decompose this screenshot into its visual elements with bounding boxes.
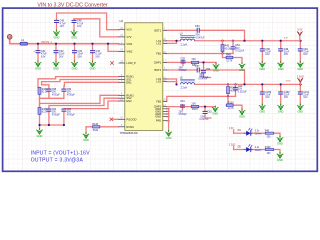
svg-text:91.3k: 91.3k — [42, 92, 49, 94]
svg-text:GND: GND — [72, 66, 78, 70]
svg-text:ROSC: ROSC — [126, 125, 134, 129]
svg-text:R137: R137 — [192, 108, 198, 111]
svg-text:PGOOD: PGOOD — [126, 117, 136, 121]
svg-text:0.047uF: 0.047uF — [200, 76, 209, 79]
svg-text:GND: GND — [278, 109, 284, 113]
svg-text:12.7k: 12.7k — [228, 107, 235, 110]
svg-text:0.047uF: 0.047uF — [200, 118, 209, 121]
svg-text:25V: 25V — [52, 112, 57, 114]
svg-text:C55: C55 — [181, 57, 186, 60]
svg-text:PAD: PAD — [156, 119, 161, 123]
svg-text:50V: 50V — [96, 55, 101, 58]
svg-text:GND: GND — [166, 136, 172, 140]
svg-text:10V: 10V — [303, 53, 308, 56]
svg-text:GND: GND — [277, 158, 283, 162]
svg-text:4700pF: 4700pF — [179, 113, 188, 116]
svg-text:10V: 10V — [284, 53, 289, 56]
svg-text:GND: GND — [71, 36, 77, 40]
svg-text:VIN/VS_1: VIN/VS_1 — [41, 41, 53, 44]
svg-text:V7V: V7V — [126, 35, 131, 39]
svg-text:GND: GND — [212, 111, 218, 115]
svg-text:EN2: EN2 — [126, 99, 132, 103]
svg-text:GND: GND — [277, 142, 283, 146]
svg-text:GND: GND — [53, 66, 59, 70]
svg-text:92.3k: 92.3k — [42, 112, 49, 114]
svg-text:R140: R140 — [92, 123, 98, 126]
svg-text:4700pF: 4700pF — [67, 114, 75, 116]
svg-text:C58: C58 — [52, 89, 57, 91]
svg-text:4700pF: 4700pF — [67, 94, 75, 96]
svg-text:R48: R48 — [226, 54, 231, 57]
svg-text:0.047uF: 0.047uF — [196, 36, 205, 39]
svg-text:0.022uF: 0.022uF — [238, 90, 247, 93]
svg-text:10V: 10V — [303, 96, 308, 99]
svg-text:20K: 20K — [192, 58, 197, 61]
svg-text:563k: 563k — [93, 129, 99, 132]
svg-text:VIN2: VIN2 — [126, 49, 132, 53]
svg-text:GND: GND — [239, 114, 245, 118]
svg-text:GND: GND — [90, 66, 96, 70]
svg-text:3.3V: 3.3V — [297, 28, 303, 32]
svg-text:OUTPUT = 3.3V@3A: OUTPUT = 3.3V@3A — [31, 158, 84, 164]
svg-text:GND: GND — [213, 69, 219, 73]
svg-text:50V: 50V — [78, 55, 83, 58]
svg-text:GND: GND — [297, 109, 303, 113]
svg-text:10V: 10V — [77, 25, 82, 28]
svg-text:GND: GND — [259, 109, 265, 113]
svg-text:+: + — [33, 49, 35, 53]
svg-text:VIN to 3.3V DC-DC Converter: VIN to 3.3V DC-DC Converter — [37, 2, 108, 8]
svg-text:INPUT = (VOUT+1)-16V: INPUT = (VOUT+1)-16V — [31, 151, 91, 157]
svg-text:LX2: LX2 — [156, 80, 161, 84]
svg-text:25V: 25V — [67, 92, 72, 94]
svg-text:FB1: FB1 — [156, 52, 161, 56]
svg-text:U3: U3 — [120, 19, 124, 23]
svg-text:BST2: BST2 — [154, 68, 161, 72]
svg-text:C61: C61 — [180, 100, 185, 103]
svg-text:EN1: EN1 — [126, 80, 132, 84]
svg-text:2.2uH: 2.2uH — [181, 43, 188, 46]
svg-text:CMP1: CMP1 — [154, 60, 162, 64]
svg-text:GND: GND — [278, 67, 284, 71]
svg-text:Green: Green — [255, 133, 262, 136]
svg-text:25V: 25V — [67, 112, 72, 114]
svg-text:GND: GND — [297, 67, 303, 71]
svg-text:GND: GND — [35, 66, 41, 70]
svg-text:FB2: FB2 — [156, 99, 161, 103]
svg-text:25V: 25V — [52, 92, 57, 94]
svg-text:10V: 10V — [60, 25, 65, 28]
svg-text:C52: C52 — [206, 68, 211, 71]
svg-text:C59: C59 — [67, 89, 72, 91]
svg-text:GND: GND — [54, 36, 60, 40]
svg-text:10V: 10V — [284, 96, 289, 99]
svg-text:3.3VD: 3.3VD — [297, 74, 304, 78]
svg-text:20K: 20K — [192, 102, 197, 105]
svg-text:12.7k: 12.7k — [226, 59, 233, 62]
svg-text:VCV: VCV — [126, 28, 132, 32]
svg-text:63V: 63V — [41, 55, 46, 58]
svg-text:GND: GND — [83, 138, 89, 142]
svg-text:BST1: BST1 — [154, 28, 161, 32]
svg-text:3.3V: 3.3V — [229, 128, 234, 130]
svg-text:10V: 10V — [265, 53, 270, 56]
svg-text:R133: R133 — [228, 101, 234, 104]
svg-text:50V: 50V — [59, 55, 64, 58]
svg-text:4700pF: 4700pF — [179, 69, 188, 72]
svg-text:VIN1: VIN1 — [126, 42, 132, 46]
svg-text:4700pF: 4700pF — [52, 94, 60, 96]
svg-text:GND: GND — [259, 67, 265, 71]
svg-text:Green: Green — [255, 149, 262, 152]
svg-text:C53: C53 — [195, 25, 200, 28]
svg-text:C63: C63 — [67, 109, 72, 111]
svg-text:2.2uH: 2.2uH — [181, 87, 188, 90]
svg-text:TPS54283S DK: TPS54283S DK — [120, 131, 139, 135]
svg-text:LX1: LX1 — [156, 41, 161, 45]
svg-text:GND: GND — [37, 134, 43, 138]
svg-text:0.022uF: 0.022uF — [235, 49, 244, 52]
svg-text:40.2k: 40.2k — [225, 48, 232, 51]
svg-text:GND: GND — [155, 115, 161, 119]
svg-text:C57: C57 — [195, 65, 200, 68]
svg-text:4700pF: 4700pF — [52, 114, 60, 116]
svg-text:3.3VD: 3.3VD — [286, 81, 292, 83]
svg-text:C62: C62 — [52, 109, 57, 111]
svg-text:3.3VD: 3.3VD — [229, 144, 236, 146]
svg-text:GND: GND — [239, 68, 245, 72]
svg-text:10V: 10V — [265, 96, 270, 99]
svg-text:LOW_P: LOW_P — [126, 61, 136, 65]
